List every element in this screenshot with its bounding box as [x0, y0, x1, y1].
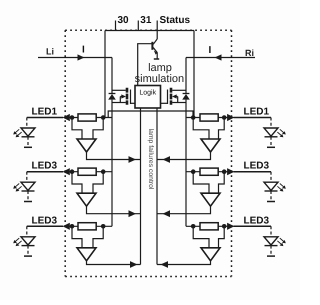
arrow to control bus row 2 left — [129, 210, 137, 217]
drain wire — [112, 89, 126, 91]
svg-text:LED1: LED1 — [244, 107, 270, 118]
comparator U1R — [201, 139, 220, 152]
svg-text:I: I — [82, 45, 85, 56]
arrow to control bus row 3 right — [161, 261, 169, 268]
sense resistor R3L — [78, 223, 96, 230]
node LED row 2 left wire — [64, 171, 112, 173]
right rail leg — [193, 31, 195, 118]
comparator U3L — [77, 248, 96, 261]
comparator U2R — [201, 193, 220, 206]
LED2 left output arrow — [63, 168, 70, 175]
channel segments — [170, 88, 173, 105]
arrow to control bus row 1 left — [129, 156, 137, 163]
external wire LED1 right — [234, 117, 272, 119]
comparator U2R input wires — [193, 172, 209, 194]
svg-text:LED3: LED3 — [244, 161, 270, 172]
ground LED3L — [24, 255, 32, 257]
left body diode D1 — [108, 58, 116, 227]
external wire LED2 left — [27, 171, 63, 173]
comparator U1L — [77, 139, 96, 152]
source wire — [172, 102, 186, 104]
comparator U1L input wires — [72, 118, 82, 140]
LED D3L — [21, 226, 35, 255]
ground LED2R — [267, 201, 275, 203]
svg-text:Status: Status — [160, 15, 191, 26]
channel segments — [126, 88, 129, 105]
right MOSFET Q3 — [161, 88, 187, 105]
comparator U3R output wire — [157, 261, 211, 265]
svg-text:LED3: LED3 — [244, 215, 270, 226]
external wire LED3 left — [27, 225, 63, 227]
Li input wire — [38, 57, 112, 59]
sense resistor R1L — [78, 114, 96, 121]
svg-text:Ri: Ri — [245, 48, 254, 58]
LED D2L — [21, 172, 35, 201]
svg-text:30: 30 — [118, 15, 130, 26]
IC dotted border — [65, 30, 231, 276]
LED3 left output arrow — [63, 223, 70, 230]
LED D1R — [264, 118, 278, 147]
gate stub — [131, 102, 136, 104]
LED1 right output arrow — [227, 114, 234, 121]
node LED row 2 right wire — [186, 171, 229, 173]
gate stub — [161, 102, 168, 104]
junction dot A row 2 left — [70, 169, 75, 174]
LED D1L — [21, 118, 35, 147]
LED D2R — [264, 172, 278, 201]
junction dot B row 3 left — [101, 224, 106, 229]
current arrow I right — [215, 54, 222, 60]
svg-text:lamp: lamp — [148, 62, 172, 74]
lamp failures control bus right — [156, 108, 158, 265]
comparator U2R output wire — [157, 206, 211, 214]
pin 31 lead — [137, 21, 139, 31]
comparator U1R output wire — [157, 152, 211, 160]
junction dot B row 1 left — [101, 115, 106, 120]
LED3 right output arrow — [227, 223, 234, 230]
external wire LED2 right — [234, 171, 272, 173]
light arrows D2L — [13, 184, 21, 192]
arrow to control bus row 1 right — [163, 156, 171, 163]
junction dot A row 1 left — [70, 115, 75, 120]
pin 30 lead — [115, 21, 117, 31]
junction dot B row 3 right — [191, 224, 196, 229]
light arrows D1L — [13, 129, 21, 137]
ground LED1L — [24, 146, 32, 148]
ground LED3R — [267, 255, 275, 257]
node LED row 3 left wire — [64, 225, 112, 227]
comparator U1L output wire — [87, 152, 141, 160]
svg-text:lamp failures control: lamp failures control — [147, 129, 154, 190]
Ri input wire — [186, 57, 255, 59]
junction dot B row 2 right — [191, 169, 196, 174]
sense resistor R3R — [200, 223, 218, 230]
comparator U2L input wires — [72, 172, 82, 194]
LED2 right output arrow — [227, 168, 234, 175]
source tie wire — [108, 111, 193, 118]
node LED row 3 right wire — [186, 225, 229, 227]
comparator U3L input wires — [72, 226, 82, 248]
sense resistor R2L — [78, 168, 96, 175]
right body diode D2 — [182, 58, 190, 227]
top supply rail — [105, 30, 194, 32]
Logik box U1 — [135, 86, 161, 109]
left rail leg — [104, 31, 106, 118]
junction dot B row 1 right — [191, 115, 196, 120]
ground LED1R — [267, 146, 275, 148]
body arrow — [176, 97, 178, 103]
arrow to control bus row 2 right — [163, 210, 171, 217]
comparator U3R — [201, 248, 220, 261]
external wire LED3 right — [234, 225, 272, 227]
rows inserted below — [13, 107, 286, 268]
ground LED2L — [24, 201, 32, 203]
junction dot B row 2 left — [101, 169, 106, 174]
svg-text:I: I — [209, 45, 212, 56]
svg-text:Li: Li — [46, 47, 54, 57]
external wire LED1 left — [27, 117, 63, 119]
svg-text:31: 31 — [140, 15, 152, 26]
pin Status lead — [156, 21, 158, 40]
junction dot A row 3 left — [70, 224, 75, 229]
light arrows D3R — [277, 238, 285, 246]
sense resistor R1R — [200, 114, 218, 121]
LED1 left output arrow — [63, 114, 70, 121]
comparator U2L output wire — [87, 206, 141, 214]
Q1 base wire to logic — [138, 44, 153, 86]
gate plate — [130, 90, 132, 105]
light arrows D2R — [277, 184, 285, 192]
current arrow I left — [78, 54, 85, 60]
svg-text:LED3: LED3 — [32, 215, 58, 226]
comparator U3L output wire — [87, 261, 141, 265]
comparator U3R input wires — [193, 226, 209, 248]
light arrows D3L — [13, 238, 21, 246]
source wire — [112, 102, 126, 104]
body arrow — [120, 97, 122, 103]
svg-text:simulation: simulation — [135, 73, 185, 85]
comparator U2L — [77, 193, 96, 206]
svg-text:Logik: Logik — [139, 89, 156, 97]
junction dot A row 2 right — [222, 169, 227, 174]
comparator U1R input wires — [193, 118, 209, 140]
svg-text:LED1: LED1 — [32, 107, 58, 118]
junction dot A row 3 right — [222, 224, 227, 229]
svg-text:LED3: LED3 — [32, 161, 58, 172]
transistor Q1 (status BJT) — [152, 39, 159, 59]
junction dot A row 1 right — [222, 115, 227, 120]
drain wire — [172, 89, 186, 91]
arrow to control bus row 3 left — [130, 261, 138, 268]
light arrows D1R — [277, 129, 285, 137]
node LED row 1 left wire — [64, 117, 112, 119]
sense resistor R2R — [200, 168, 218, 175]
lamp failures control bus left — [140, 108, 142, 265]
gate plate — [167, 90, 169, 105]
LED D3R — [264, 226, 278, 255]
node LED row 1 right wire — [186, 117, 229, 119]
left MOSFET Q2 — [112, 88, 135, 105]
